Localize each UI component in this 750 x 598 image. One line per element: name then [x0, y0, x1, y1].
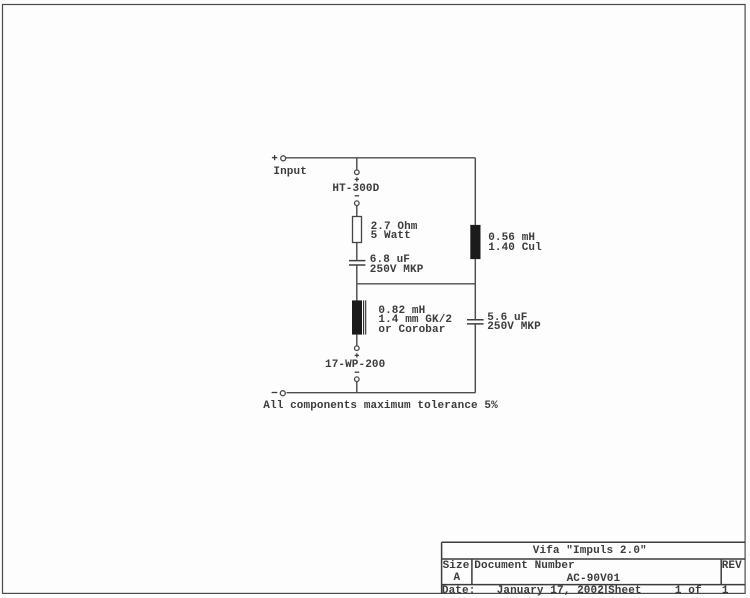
title block label Size: [443, 562, 470, 571]
resistor R1 value 2.7 Ohm 5 Watt: [371, 223, 418, 242]
title block line under title row: [442, 558, 745, 560]
title block size value A: [454, 574, 461, 583]
resistor R1 2.7 Ohm: [353, 217, 362, 243]
wire inductor to woofer terminal: [356, 335, 358, 346]
sheet value 1: [722, 587, 729, 596]
capacitor C2 5.6 uF: [467, 320, 484, 324]
sheet value 1 of: [675, 587, 702, 596]
woofer U2 terminal +: [355, 346, 360, 358]
tweeter U1 terminal +: [355, 170, 360, 182]
wire bottom (minus to right branch): [287, 392, 476, 394]
wire tweeter stub upper: [356, 158, 358, 170]
capacitor C1 value 6.8 uF 250V MKP: [370, 256, 424, 275]
document number AC-90V01: [567, 575, 621, 584]
title block label Document Number: [474, 562, 575, 571]
capacitor C1 6.8 uF: [349, 261, 365, 265]
wire woofer terminal to bottom: [356, 382, 358, 393]
title block label REV: [722, 562, 742, 571]
woofer U2 label 17-WP-200: [325, 361, 385, 370]
date value January 17 2002: [497, 587, 604, 596]
wire tweeter to resistor: [356, 206, 358, 217]
title block divider sheet: [605, 585, 607, 594]
tweeter U1 terminal -: [355, 196, 360, 206]
wire mid junction: [357, 283, 476, 285]
inductor L1 0.56 mH (air core): [470, 225, 480, 259]
title block outline: [442, 542, 745, 593]
title block label Sheet: [608, 587, 642, 596]
tweeter U1 label HT-300D: [332, 185, 379, 194]
inductor L1 value 0.56 mH 1.40 Cul: [488, 234, 542, 253]
title block divider size/document: [471, 559, 473, 585]
note tolerance: [263, 402, 498, 411]
title block divider rev: [720, 559, 722, 585]
terminal input +: [272, 155, 286, 161]
title block label Date: [442, 587, 476, 596]
wire resistor to capacitor: [356, 243, 358, 260]
terminal input -: [272, 391, 286, 396]
inductor L2 0.82 mH (iron core): [352, 300, 366, 334]
wire right branch upper: [474, 158, 476, 319]
wire top (input + to right branch): [286, 157, 475, 159]
woofer U2 terminal -: [355, 372, 360, 381]
label Input: [273, 168, 307, 177]
wire capacitor to inductor L2: [356, 266, 358, 301]
capacitor C2 value 5.6 uF 250V MKP: [487, 314, 541, 333]
inductor L2 value 0.82 mH 1.4 mm GK/2 or Corobar: [378, 307, 452, 335]
title Vifa Impuls 2.0: [533, 547, 647, 556]
title block line above date row: [442, 584, 745, 586]
wire right branch lower: [474, 324, 476, 393]
